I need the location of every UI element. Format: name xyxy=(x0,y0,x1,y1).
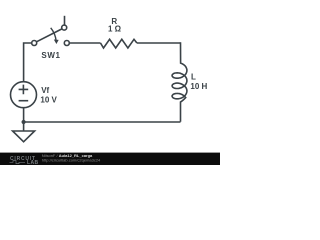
switch SW1 terminal top xyxy=(62,25,67,30)
svg-text:10 V: 10 V xyxy=(40,96,57,105)
svg-text:L: L xyxy=(191,72,196,81)
svg-text:http://circuitlab.com/c2qema3c: http://circuitlab.com/c2qema3c24 xyxy=(42,157,101,162)
svg-text:LAB: LAB xyxy=(27,160,38,165)
wire xyxy=(24,121,181,123)
resistor R xyxy=(101,39,137,48)
switch SW1 top stub xyxy=(64,16,66,25)
switch SW1 arm xyxy=(37,29,62,42)
plus sign xyxy=(19,85,29,95)
switch SW1 arrowhead xyxy=(54,40,59,45)
footer logo waveform xyxy=(10,161,26,164)
svg-text:1 Ω: 1 Ω xyxy=(108,25,122,34)
voltage source Vf xyxy=(11,82,37,108)
node junction xyxy=(22,120,26,124)
wire xyxy=(137,42,181,44)
svg-text:10 H: 10 H xyxy=(190,82,207,91)
wire xyxy=(23,108,25,122)
inductor L xyxy=(172,42,187,122)
switch SW1 arrow xyxy=(51,28,57,42)
svg-text:Vf: Vf xyxy=(41,86,49,95)
wire xyxy=(23,122,25,131)
ground xyxy=(13,131,35,142)
svg-text:SW1: SW1 xyxy=(41,51,60,60)
wire xyxy=(69,42,100,44)
wire xyxy=(24,43,32,82)
minus sign xyxy=(19,100,29,102)
switch SW1 terminal right xyxy=(64,41,69,46)
switch SW1 terminal left xyxy=(32,41,37,46)
footer bar xyxy=(0,153,220,165)
